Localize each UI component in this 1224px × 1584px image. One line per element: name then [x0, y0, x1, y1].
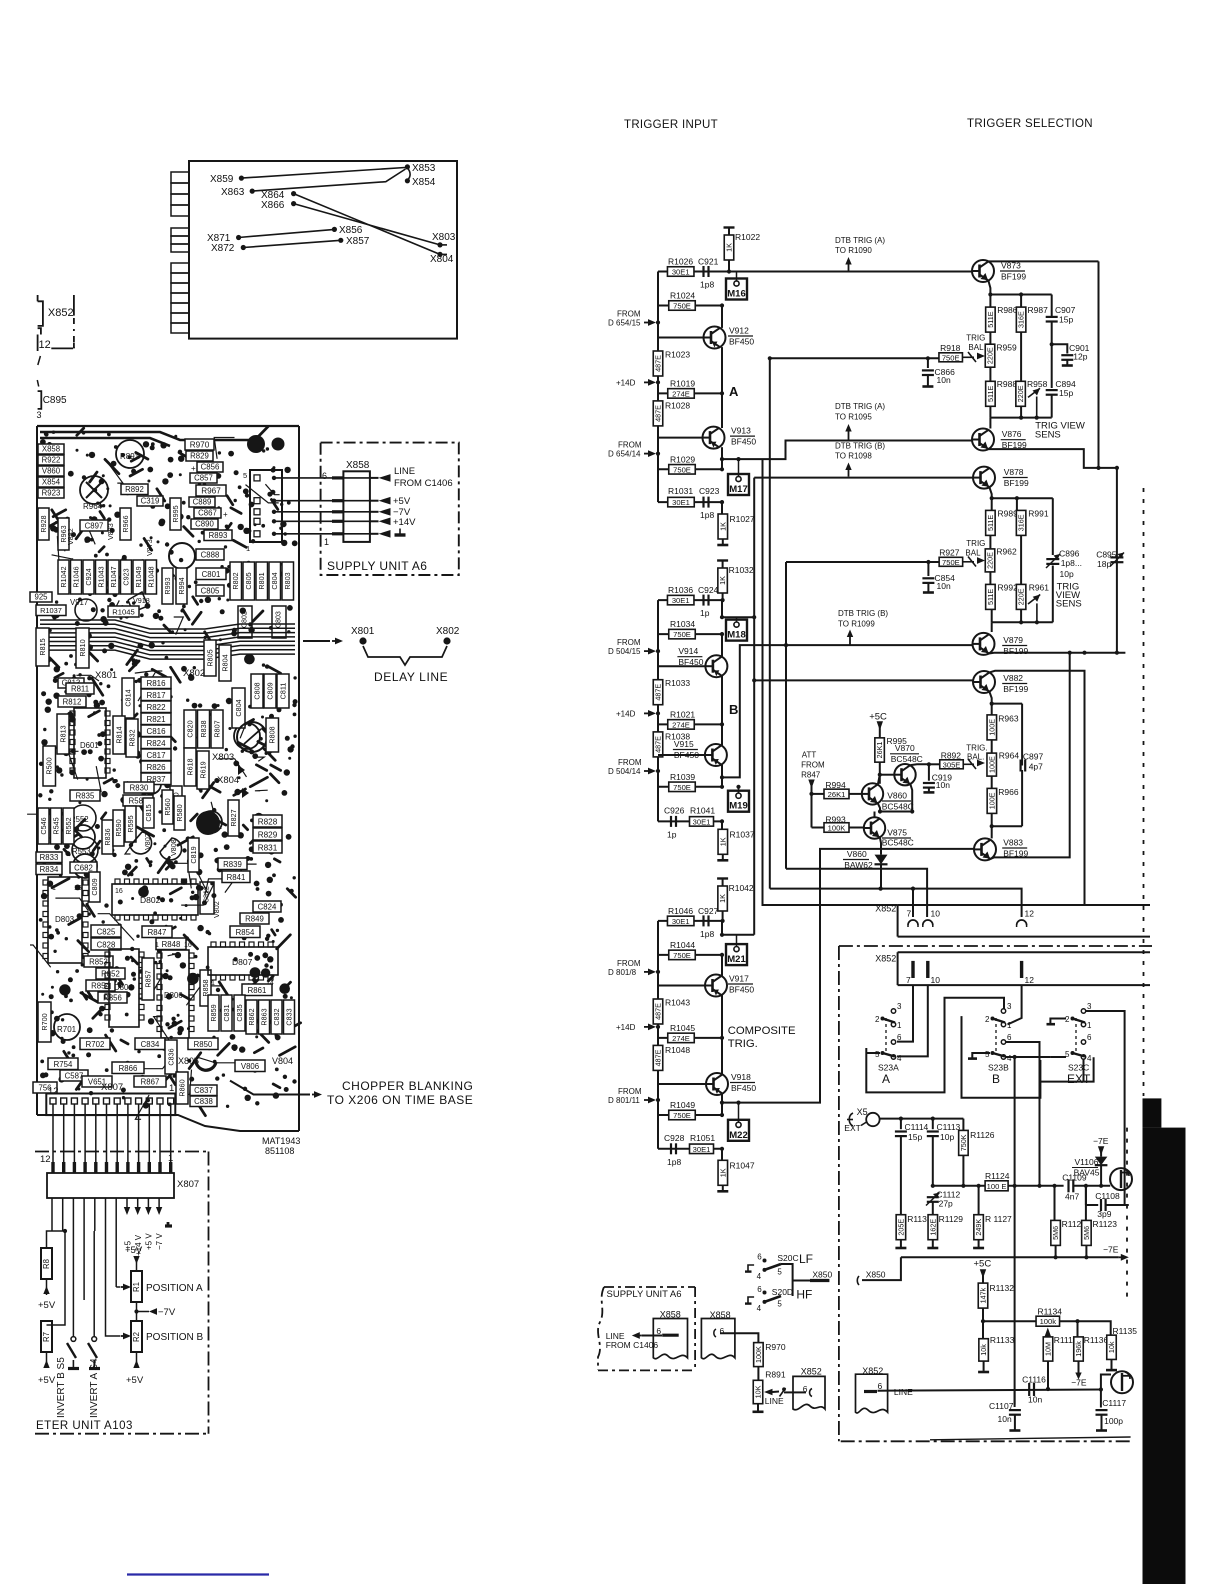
svg-text:R849: R849 — [245, 915, 264, 924]
svg-text:C890: C890 — [195, 520, 214, 529]
svg-text:511E: 511E — [986, 515, 995, 531]
svg-text:R1046: R1046 — [668, 906, 693, 916]
PCB part R826 — [141, 761, 171, 773]
svg-text:6: 6 — [1087, 1033, 1092, 1042]
transistor V878 BF199 — [973, 467, 995, 489]
svg-text:FROM: FROM — [617, 310, 641, 319]
svg-text:R959: R959 — [996, 343, 1017, 353]
svg-text:R1023: R1023 — [665, 350, 690, 360]
svg-text:TRIG: TRIG — [966, 334, 985, 343]
svg-text:+5C: +5C — [974, 1259, 992, 1270]
svg-text:R1037: R1037 — [40, 606, 62, 615]
svg-text:BF450: BF450 — [678, 657, 703, 667]
svg-text:1K: 1K — [718, 837, 727, 846]
svg-text:X804: X804 — [217, 775, 239, 786]
wire EXT row to C1109 — [1008, 1185, 1064, 1187]
resistor R1123 — [1085, 1186, 1087, 1220]
PCB part C867 — [194, 508, 221, 518]
svg-text:7: 7 — [907, 909, 912, 919]
wire row R1041 — [658, 820, 722, 822]
svg-text:3p9: 3p9 — [1097, 1209, 1111, 1219]
resistor R1027 (to ground) — [721, 502, 723, 514]
wire S23C contact4 down — [1083, 1059, 1085, 1082]
svg-text:3: 3 — [1087, 1002, 1092, 1011]
svg-text:BF199: BF199 — [1003, 684, 1028, 694]
PCB part C811 — [277, 674, 289, 708]
resistor R1048 — [653, 1045, 663, 1070]
svg-text:5M6: 5M6 — [1082, 1226, 1091, 1240]
svg-text:X850: X850 — [866, 1270, 886, 1280]
connector CRT plate (LINE) — [1111, 1371, 1133, 1393]
PCB part R923 — [38, 488, 64, 498]
resistor R988 — [986, 381, 996, 406]
wire bus to X852 pin 10 (via 868.7 row) — [786, 869, 927, 917]
capacitor C928 — [670, 1143, 672, 1154]
transistor V913 BF450 — [703, 427, 725, 449]
wire PCB to X807 (12 wires) — [52, 1104, 54, 1173]
PCB part R618 — [184, 748, 196, 786]
svg-text:R986: R986 — [997, 305, 1018, 315]
wire V873 collector top bus — [988, 260, 1098, 262]
PCB part R833 — [36, 852, 62, 863]
resistor R1028 — [653, 401, 663, 426]
PCB part 925 — [30, 592, 52, 602]
svg-text:R835: R835 — [76, 792, 95, 801]
wire diode to bus — [880, 864, 882, 888]
svg-text:D802: D802 — [140, 895, 161, 905]
resistor R959 — [989, 332, 991, 344]
PCB part D803 — [48, 877, 82, 963]
resistor R918 — [939, 353, 963, 362]
svg-text:R850: R850 — [194, 1040, 213, 1049]
node X854 — [405, 178, 410, 183]
svg-text:750E: 750E — [673, 783, 691, 792]
wire S23A box outline — [866, 1052, 880, 1054]
PCB part D807 — [208, 947, 278, 975]
wire R1134 row — [983, 1320, 1036, 1322]
svg-text:C803: C803 — [276, 611, 283, 628]
svg-text:16: 16 — [74, 885, 82, 892]
svg-text:316E: 316E — [1017, 311, 1026, 328]
svg-text:R966: R966 — [998, 787, 1019, 797]
wire X5 to C1114/C1113/R1126 — [880, 1118, 964, 1120]
wire bus row B top — [658, 599, 722, 601]
svg-text:C546: C546 — [39, 817, 48, 834]
svg-text:R826: R826 — [146, 763, 166, 772]
svg-text:S20D: S20D — [772, 1287, 793, 1297]
capacitor C923 — [702, 497, 704, 508]
svg-text:C924: C924 — [698, 585, 719, 595]
PCB part R834 — [36, 864, 62, 875]
svg-text:1K: 1K — [725, 243, 734, 252]
ground (R1127) — [973, 1247, 984, 1250]
svg-text:TO R1090: TO R1090 — [835, 246, 872, 255]
svg-text:R1048: R1048 — [665, 1045, 690, 1055]
resistor R961 — [1020, 535, 1022, 584]
PCB part R813 — [57, 714, 69, 754]
PCB part C816 — [141, 725, 171, 737]
svg-text:750E: 750E — [942, 353, 960, 362]
transistor V876 BF199 — [972, 429, 994, 451]
svg-text:C824: C824 — [258, 903, 277, 912]
svg-text:750E: 750E — [673, 630, 691, 639]
svg-text:220E: 220E — [1016, 385, 1025, 402]
svg-text:M21: M21 — [727, 954, 746, 965]
svg-text:V860: V860 — [42, 467, 61, 476]
PCB part C897 — [80, 520, 108, 531]
switch S5 INVERT B — [71, 1337, 76, 1342]
svg-text:R922: R922 — [42, 456, 61, 465]
capacitor C919 10n — [928, 764, 930, 780]
svg-text:R829: R829 — [190, 452, 209, 461]
capacitor C1109 4n7 — [1067, 1179, 1069, 1192]
PCB part R993 — [162, 568, 173, 604]
PCB part R853 — [84, 956, 113, 967]
wire rail — [657, 272, 659, 503]
svg-text:X5: X5 — [857, 1107, 868, 1117]
svg-text:C926: C926 — [664, 805, 685, 815]
svg-text:R805: R805 — [205, 649, 214, 666]
measuring point M21 — [726, 944, 747, 965]
svg-text:DTB TRIG (B): DTB TRIG (B) — [838, 609, 888, 618]
resistor R1022 (to supply) — [724, 235, 734, 260]
resistor R1024 — [669, 301, 696, 311]
svg-text:V870: V870 — [895, 743, 915, 753]
svg-text:R1049: R1049 — [134, 566, 143, 587]
svg-text:X854: X854 — [42, 478, 61, 487]
svg-text:C817: C817 — [146, 751, 166, 760]
resistor R989 — [986, 510, 996, 535]
svg-text:X857: X857 — [346, 236, 370, 247]
svg-text:SUPPLY UNIT A6: SUPPLY UNIT A6 — [607, 1289, 682, 1300]
svg-text:M19: M19 — [729, 801, 747, 812]
PCB part D806 — [161, 950, 189, 1038]
svg-text:1: 1 — [169, 1083, 174, 1094]
wire collector V917 — [721, 955, 723, 976]
wire M18 row loop — [721, 600, 723, 617]
svg-text:10: 10 — [931, 909, 941, 919]
svg-text:R1133: R1133 — [990, 1335, 1015, 1345]
resistor R1032 (to supply) — [718, 568, 728, 593]
svg-text:R857: R857 — [143, 970, 152, 987]
svg-text:X807: X807 — [101, 1082, 123, 1093]
resistor R2 POSITION B — [131, 1321, 142, 1352]
capacitor C895 18p (variable) — [1110, 556, 1123, 558]
PCB part R862 — [246, 1000, 257, 1034]
svg-text:R830: R830 — [130, 784, 149, 793]
svg-text:R702: R702 — [86, 1040, 105, 1049]
svg-text:X803: X803 — [432, 232, 456, 243]
svg-text:C804: C804 — [270, 572, 279, 589]
svg-text:100K: 100K — [754, 1346, 763, 1363]
PCB part C808 — [251, 674, 263, 708]
svg-text:R817: R817 — [146, 691, 166, 700]
wire group1 top rail — [990, 294, 1051, 296]
svg-text:V873: V873 — [145, 539, 154, 556]
svg-text:R963: R963 — [998, 714, 1019, 724]
svg-text:S23C: S23C — [1068, 1063, 1089, 1073]
PCB part C828 — [91, 938, 121, 950]
svg-text:V860: V860 — [887, 791, 907, 801]
PCB part R552 — [63, 808, 74, 844]
resistor R1029 — [669, 465, 696, 475]
svg-text:R1129: R1129 — [939, 1214, 964, 1224]
PCB part R810 — [76, 628, 89, 668]
resistor R964 — [991, 740, 993, 753]
svg-text:R1134: R1134 — [1038, 1307, 1063, 1317]
svg-text:15p: 15p — [908, 1132, 922, 1142]
svg-text:R970: R970 — [190, 441, 210, 450]
wire S23C box outline — [1040, 1057, 1093, 1081]
wire arrow to delay line — [303, 640, 330, 642]
svg-text:C1108: C1108 — [1095, 1191, 1120, 1201]
wire R8 feed — [47, 1231, 53, 1248]
svg-text:487E: 487E — [654, 684, 663, 701]
connector X807 — [47, 1173, 174, 1198]
wire emitter junction V913 — [721, 447, 723, 459]
svg-text:BC548C: BC548C — [891, 754, 923, 764]
svg-text:−7V: −7V — [158, 1307, 176, 1318]
PCB part V918 — [128, 592, 148, 612]
resistor R1126 — [962, 1119, 964, 1130]
wire V878 base row — [754, 477, 973, 479]
PCB part R856 — [98, 992, 127, 1003]
resistor R1131 — [896, 1215, 906, 1240]
svg-text:3: 3 — [1007, 1002, 1012, 1011]
wire chopper blanking with arrow — [230, 1081, 310, 1095]
junction — [727, 269, 731, 273]
svg-text:R814: R814 — [114, 726, 123, 743]
PCB part R815 — [36, 628, 49, 666]
capacitor C1116 10n — [1028, 1383, 1030, 1396]
svg-text:S20C: S20C — [777, 1253, 798, 1263]
svg-text:B: B — [992, 1072, 1000, 1086]
svg-text:R811: R811 — [71, 685, 89, 694]
svg-text:R859: R859 — [209, 1004, 218, 1021]
svg-text:30E1: 30E1 — [672, 498, 690, 507]
wire bottom line right — [930, 1437, 1131, 1440]
svg-text:10n: 10n — [937, 375, 951, 385]
ground (C1117) — [1096, 1429, 1107, 1432]
wire X852 pin 7 feed — [912, 889, 914, 917]
PCB part R811 — [66, 683, 94, 694]
ground (X807) — [167, 1222, 170, 1226]
svg-text:R1042: R1042 — [59, 566, 68, 587]
wire V860 collector — [878, 775, 880, 785]
wire row R1031 — [658, 501, 722, 503]
node -7E (R1136) — [1075, 1373, 1081, 1380]
registration black bar — [1143, 1098, 1162, 1127]
svg-text:X853: X853 — [412, 163, 436, 174]
PCB part V860 — [38, 466, 64, 476]
capacitor C1114 15p — [900, 1119, 902, 1130]
svg-text:4: 4 — [757, 1272, 762, 1281]
resistor R8 — [41, 1248, 52, 1279]
svg-text:R1048: R1048 — [146, 566, 155, 587]
svg-text:R1022: R1022 — [735, 232, 760, 242]
diode V860 BAW62 — [875, 855, 888, 865]
svg-text:750E: 750E — [673, 302, 691, 311]
PCB part C812 — [200, 882, 214, 914]
PCB part V807 — [130, 832, 152, 854]
PCB part C815 — [143, 798, 154, 828]
wire base V914 — [658, 665, 705, 667]
svg-text:10k: 10k — [1107, 1341, 1116, 1353]
svg-text:10n: 10n — [936, 780, 950, 790]
PCB part C804 — [232, 688, 245, 728]
svg-text:1K: 1K — [718, 522, 727, 531]
PCB inner top traces — [40, 432, 250, 440]
wire R1134 to R1135 — [1060, 1321, 1111, 1335]
PCB dark blob — [196, 811, 220, 835]
wire row R1039 — [658, 786, 722, 788]
svg-text:R1044: R1044 — [670, 940, 695, 950]
svg-text:R 1127: R 1127 — [985, 1214, 1012, 1224]
PCB part R1045 — [108, 606, 139, 617]
wire LINE FROM C1406 with arrow — [370, 477, 379, 479]
svg-text:MAT1943: MAT1943 — [262, 1136, 300, 1146]
wire V918 emitter to V883 base — [724, 849, 974, 1103]
svg-text:274E: 274E — [672, 1034, 690, 1043]
PCB part R817 — [141, 689, 171, 701]
svg-text:R987: R987 — [1028, 305, 1049, 315]
svg-text:220E: 220E — [986, 552, 995, 569]
ground — [722, 1185, 724, 1191]
transistor V873 BF199 — [972, 260, 994, 282]
transistor V918 BF450 — [706, 1073, 728, 1095]
svg-text:R966: R966 — [121, 515, 130, 532]
board edge pins group 2 — [171, 228, 189, 236]
unit boundary dashed (right) — [1143, 488, 1145, 1096]
ground (C854) — [923, 591, 934, 594]
svg-text:D804: D804 — [114, 983, 133, 992]
svg-text:R815: R815 — [38, 638, 47, 655]
svg-text:X852: X852 — [875, 954, 896, 964]
svg-text:C923: C923 — [121, 568, 130, 585]
resistor R966 — [991, 776, 993, 788]
svg-text:27p: 27p — [939, 1199, 953, 1209]
svg-text:A: A — [729, 384, 739, 399]
capacitor C1108 3p9 — [1085, 1186, 1087, 1205]
wire row R1019 — [658, 392, 722, 394]
PCB part R963 — [58, 518, 69, 550]
svg-text:R1027: R1027 — [730, 514, 755, 524]
PCB part R700 — [38, 1002, 51, 1042]
PCB part R835 — [70, 790, 100, 801]
ground — [722, 539, 724, 545]
svg-text:4n7: 4n7 — [1065, 1192, 1079, 1202]
svg-text:15p: 15p — [1059, 388, 1073, 398]
wire collector V912 — [721, 306, 723, 328]
wire X853-X854 arc — [407, 168, 410, 180]
PCB bottom connector pads — [46, 1094, 175, 1116]
svg-text:+: + — [191, 464, 196, 473]
svg-text:R560: R560 — [163, 798, 172, 815]
PCB screw holes — [80, 476, 108, 504]
svg-text:POSITION A: POSITION A — [146, 1283, 203, 1294]
svg-text:C833: C833 — [284, 1008, 293, 1025]
resistor R963 — [991, 704, 993, 716]
svg-text:FROM: FROM — [618, 1087, 642, 1096]
wire V875 collector — [874, 812, 876, 818]
PCB part 756 — [33, 1082, 57, 1093]
svg-text:V879: V879 — [1003, 635, 1023, 645]
svg-text:HF: HF — [796, 1288, 812, 1302]
ground (C919) — [923, 791, 934, 794]
svg-text:R1132: R1132 — [990, 1283, 1015, 1293]
wire R918 trim arrow into R959 — [962, 356, 974, 358]
svg-text:6: 6 — [720, 1326, 725, 1336]
resistor R962 — [989, 535, 991, 548]
brace delay line — [363, 646, 447, 665]
PCB part R966 — [120, 508, 131, 540]
svg-text:BAL: BAL — [968, 343, 984, 352]
svg-text:1: 1 — [897, 1021, 902, 1030]
capacitor C921 — [702, 266, 704, 277]
capacitor C1113 10p — [932, 1119, 934, 1130]
svg-text:R7: R7 — [42, 1332, 51, 1342]
resistor R1031 — [668, 497, 695, 507]
resistor R1049 — [669, 1110, 696, 1120]
capacitor C1107 10n — [1014, 1390, 1016, 1408]
svg-text:D803: D803 — [55, 915, 75, 924]
svg-text:1p8...: 1p8... — [1061, 558, 1082, 568]
svg-text:R994: R994 — [177, 577, 186, 594]
svg-text:V875: V875 — [887, 828, 907, 838]
ground (R1129) — [927, 1247, 938, 1250]
svg-text:750E: 750E — [673, 465, 691, 474]
PCB part R928 — [38, 508, 49, 540]
svg-text:C837: C837 — [194, 1086, 213, 1095]
svg-text:5: 5 — [777, 1268, 782, 1277]
svg-text:+14D: +14D — [616, 709, 636, 718]
wire X859 to X853 — [241, 168, 405, 179]
PCB part R867 — [134, 1076, 166, 1087]
svg-text:R812: R812 — [63, 698, 82, 707]
wire emitter junction V918 — [721, 1094, 723, 1103]
svg-text:26K1: 26K1 — [828, 790, 846, 799]
wires below X807 — [51, 1198, 53, 1231]
svg-text:5: 5 — [777, 1300, 782, 1309]
PCB part R808 — [266, 718, 279, 752]
svg-text:1: 1 — [52, 885, 56, 892]
svg-text:R580: R580 — [175, 804, 184, 821]
PCB part R854 — [86, 980, 115, 991]
transistor V912 BF450 — [704, 327, 726, 349]
PCB part C837 — [190, 1085, 217, 1096]
measuring point M22 — [728, 1120, 749, 1141]
capacitor C896 1p8..10p (variable) — [1046, 558, 1059, 560]
svg-text:+: + — [223, 510, 228, 519]
wire X863 to X853 (bent) — [252, 169, 405, 191]
junction — [721, 598, 725, 602]
resistor R1023 — [653, 351, 663, 376]
PCB part R922 — [38, 455, 64, 465]
svg-text:750E: 750E — [942, 558, 960, 567]
PCB short traces — [40, 427, 301, 1116]
PCB part R831 — [253, 841, 282, 853]
svg-text:220E: 220E — [1017, 588, 1026, 605]
PCB part R1043 — [96, 560, 107, 594]
svg-text:305E: 305E — [943, 760, 961, 769]
PCB part V806 — [235, 1060, 265, 1072]
wire S23B box outline — [962, 1016, 1041, 1098]
svg-text:12: 12 — [1025, 909, 1035, 919]
svg-text:FROM C1406: FROM C1406 — [606, 1340, 659, 1350]
wire X852 pin12 to S23B contact 1 — [1008, 985, 1022, 1024]
wire V879 emitter line — [989, 652, 1126, 655]
PCB part R816 — [141, 677, 171, 689]
